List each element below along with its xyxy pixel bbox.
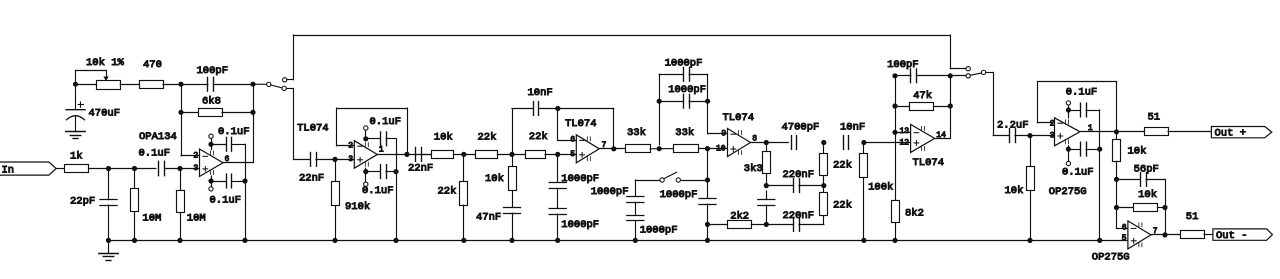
wire bus right drop — [950, 35, 966, 69]
capacitor 1000pF pair lower — [659, 84, 707, 108]
node fb-left mid — [178, 110, 183, 115]
resistor 10k shunt stage6 — [1005, 136, 1035, 241]
node rail junction x512 — [509, 238, 514, 243]
wire 33k to 33k — [650, 148, 673, 150]
svg-text:6: 6 — [570, 136, 575, 145]
svg-text:22pF: 22pF — [70, 196, 95, 208]
wire feedback left vertical — [181, 84, 183, 156]
node fb5 right mid — [948, 103, 953, 108]
svg-text:8k2: 8k2 — [905, 208, 924, 220]
wire top bypass bus — [293, 35, 950, 37]
svg-text:22k: 22k — [833, 200, 852, 212]
pin 5 label U7 — [1122, 234, 1127, 243]
resistor 51 bottom — [1181, 211, 1205, 238]
capacitor 4700pF — [782, 122, 820, 150]
op-amp U6 OP275G — [1049, 118, 1087, 198]
svg-text:TL074: TL074 — [913, 157, 945, 169]
capacitor 1000pF sw upper — [591, 186, 644, 203]
capacitor 10nF feedback — [512, 87, 614, 154]
wire 2.2uF to pin3 — [1015, 135, 1055, 137]
pin 3 label U1 — [193, 164, 198, 173]
node rail junction x707.5 — [705, 238, 710, 243]
svg-text:1000pF: 1000pF — [660, 189, 698, 201]
wire U2 output — [377, 154, 431, 156]
capacitor 470uF electrolytic — [66, 84, 120, 132]
wire fb node to switch1 — [253, 83, 267, 85]
svg-text:910k: 910k — [345, 201, 370, 213]
capacitor 0.1uF U1 bottom — [210, 174, 246, 206]
svg-text:0.1uF: 0.1uF — [1066, 87, 1098, 99]
node 100k top — [861, 140, 866, 145]
node rail junction x863.9 — [861, 238, 866, 243]
resistor 22k shunt1 — [438, 154, 468, 240]
pin 2 label U1 — [193, 152, 198, 161]
node pair right — [705, 99, 710, 104]
pin 7 label U3 — [602, 141, 607, 150]
pin 14 label U5 — [936, 131, 946, 140]
svg-text:5: 5 — [570, 150, 575, 159]
capacitor 22nF ladder — [408, 148, 433, 175]
svg-text:10M: 10M — [142, 212, 161, 224]
wire to pin12 — [864, 142, 911, 144]
resistor 22k twin-T lower — [820, 186, 852, 216]
wire throw-down to filter — [286, 88, 293, 159]
wire 22k to node2 — [498, 154, 526, 156]
wire 10k to 22k — [454, 154, 475, 156]
wire between sw caps — [635, 202, 637, 215]
svg-text:2.2uF: 2.2uF — [997, 120, 1029, 132]
node gain junction — [73, 82, 78, 87]
node after coupling cap — [177, 166, 182, 171]
wire cap to 10k — [421, 154, 431, 156]
svg-text:1000pF: 1000pF — [640, 224, 678, 236]
pin 3 label U6 — [1050, 132, 1055, 141]
node fb-left top — [178, 82, 183, 87]
port Out- — [1213, 229, 1273, 242]
wire pin6 — [1117, 228, 1128, 230]
svg-text:10nF: 10nF — [528, 87, 553, 99]
pin 6 label U3 — [570, 136, 575, 145]
pin 2 label U6 — [1050, 120, 1055, 129]
switch S1b throw down — [966, 74, 970, 78]
node U2 decoup join — [393, 169, 398, 174]
resistor 10M (first) — [131, 169, 162, 241]
node input-A junction — [106, 166, 111, 171]
svg-text:22nF: 22nF — [408, 163, 433, 175]
node U3 output — [611, 146, 616, 151]
wire fb5 right upper — [950, 76, 952, 106]
svg-text:6k8: 6k8 — [202, 95, 221, 107]
wire 51 to Out+ — [1168, 131, 1211, 133]
wire U6 decoup vertical — [1099, 110, 1101, 240]
wire feedback right vertical — [253, 84, 255, 163]
svg-text:10k: 10k — [434, 132, 453, 144]
op-amp U1 OPA134 — [139, 131, 223, 177]
node rail junction x1099.7 — [1097, 238, 1102, 243]
wire 1000pF pair left vertical — [659, 74, 661, 145]
node twin-T left bottom — [764, 222, 769, 227]
capacitor 1000pF chain lower — [549, 209, 599, 241]
capacitor 220nF row3 — [766, 218, 824, 232]
switch S2 contact right — [676, 178, 680, 182]
node rail junction x396 — [393, 238, 398, 243]
svg-text:Out +: Out + — [1215, 127, 1247, 139]
svg-text:22k: 22k — [438, 186, 457, 198]
node U6 decoup join — [1097, 147, 1102, 152]
svg-text:In: In — [2, 164, 15, 176]
svg-text:0.1uF: 0.1uF — [139, 148, 171, 160]
node U2 bottom decoup — [363, 169, 368, 174]
node fb5 left mid — [892, 103, 897, 108]
svg-text:10: 10 — [716, 144, 726, 153]
svg-text:2: 2 — [1050, 120, 1055, 129]
wire U2 decoup vertical — [396, 139, 398, 241]
node U1 decoup join — [242, 178, 247, 183]
svg-text:1000pF: 1000pF — [561, 219, 599, 231]
node fb5 left top — [892, 73, 897, 78]
capacitor 2.2uF — [997, 120, 1029, 143]
resistor 470 — [140, 59, 164, 89]
resistor 100k — [860, 143, 894, 241]
resistor 51 top — [1145, 112, 1169, 136]
node fb5 right top — [948, 73, 953, 78]
wire gain node to pot — [76, 84, 97, 86]
pin 7 label U7 — [1153, 227, 1158, 236]
potentiometer 10k body — [97, 81, 121, 90]
wire fb right drop — [613, 109, 615, 149]
wire U5 output — [935, 106, 951, 139]
resistor 2k2 — [708, 210, 767, 228]
svg-text:100pF: 100pF — [887, 59, 919, 71]
wire pin9 riser — [708, 74, 728, 134]
node 10k-fb left — [1114, 205, 1119, 210]
svg-text:10M: 10M — [187, 212, 206, 224]
wire R470 to feedback node — [163, 84, 181, 86]
port Out+ — [1211, 127, 1271, 140]
svg-text:13: 13 — [900, 127, 910, 136]
node 2k2 tap — [705, 222, 710, 227]
node rail junction x245 — [242, 238, 247, 243]
svg-text:22k: 22k — [833, 160, 852, 172]
node ladder-2 — [509, 152, 514, 157]
svg-text:100pF: 100pF — [197, 65, 229, 77]
node U6 top decoup — [1066, 107, 1071, 112]
node input-B junction — [132, 166, 137, 171]
wire 22k-B bottom hook — [823, 216, 825, 225]
svg-text:3: 3 — [348, 155, 353, 164]
svg-text:56pF: 56pF — [1134, 163, 1159, 175]
node ladder-1 — [461, 152, 466, 157]
node rail junction x1030 — [1027, 238, 1032, 243]
node U4 output — [764, 140, 769, 145]
pin 3 label U2 — [348, 155, 353, 164]
svg-text:0.1uF: 0.1uF — [370, 116, 402, 128]
svg-text:1000pF: 1000pF — [591, 186, 629, 198]
svg-text:100k: 100k — [868, 182, 893, 194]
node switch2 tap — [705, 177, 710, 182]
pin 12 label U5 — [900, 138, 910, 147]
node rail junction x557.7 — [555, 238, 560, 243]
svg-text:1000pF: 1000pF — [665, 57, 703, 69]
wire U2 feedback loop — [337, 108, 408, 154]
capacitor 56pF — [1117, 163, 1166, 207]
ground symbol main — [99, 240, 118, 260]
wire coupling cap to pin3 — [165, 168, 200, 170]
node 22k-A top — [821, 140, 826, 145]
svg-text:0.1uF: 0.1uF — [362, 185, 394, 197]
capacitor 1000pF sw lower — [627, 216, 678, 241]
node pin13 junction — [892, 130, 897, 135]
wire ground rail — [109, 240, 1128, 242]
svg-text:10k: 10k — [1005, 185, 1024, 197]
svg-text:1000pF: 1000pF — [561, 173, 599, 185]
power pin bottom U6 — [1066, 146, 1070, 166]
node 10k tap stage6 — [1027, 133, 1032, 138]
switch S2 lever — [664, 172, 677, 178]
resistor 6k8 — [181, 95, 253, 116]
wire pot to R470 — [120, 84, 139, 86]
pin 1 label U6 — [1088, 124, 1093, 133]
resistor 22k series2 — [526, 131, 548, 159]
wire U1 pin2 — [181, 155, 200, 157]
pin 6 label U7 — [1122, 224, 1127, 233]
node U6 output — [1114, 129, 1119, 134]
power pin bottom U2 — [364, 168, 368, 186]
node U7 output — [1162, 232, 1167, 237]
power pin bottom U1 — [209, 176, 213, 191]
switch S1a throw down — [282, 86, 286, 90]
node 10nF to pin6 — [555, 106, 560, 111]
node rail junction x134.5 — [132, 238, 137, 243]
wire gain node riser — [76, 71, 107, 85]
wire U7 output — [1151, 234, 1180, 236]
svg-text:3: 3 — [193, 164, 198, 173]
svg-text:10k: 10k — [1128, 145, 1147, 157]
capacitor 0.1uF input coupling — [139, 148, 171, 176]
capacitor 0.1uF U1 top — [211, 126, 250, 151]
svg-text:22k: 22k — [478, 132, 497, 144]
svg-text:22k: 22k — [529, 131, 548, 143]
capacitor 220nF shunt — [758, 191, 814, 224]
svg-text:9: 9 — [721, 130, 726, 139]
svg-text:5: 5 — [1122, 234, 1127, 243]
svg-text:47k: 47k — [913, 90, 932, 102]
node 33k junction — [657, 146, 662, 151]
wire U1 output — [223, 162, 253, 164]
op-amp U7 OP275G — [1092, 221, 1151, 263]
svg-text:1000pF: 1000pF — [668, 84, 706, 96]
resistor 910k — [332, 159, 371, 240]
node U2 top decoup — [363, 136, 368, 141]
capacitor 10nF series — [840, 122, 865, 150]
svg-text:OP275G: OP275G — [1092, 251, 1130, 263]
svg-text:33k: 33k — [627, 127, 646, 139]
node rail junction x108.5 — [106, 238, 111, 243]
capacitor 0.1uF U6 top — [1066, 87, 1100, 117]
svg-text:220nF: 220nF — [783, 169, 815, 181]
capacitor 22pF — [70, 169, 117, 241]
svg-text:33k: 33k — [675, 127, 694, 139]
potentiometer 10k 1% wiper arrow — [86, 57, 124, 81]
pin 10 label U4 — [716, 144, 726, 153]
node 910k tap — [332, 157, 337, 162]
svg-text:3k3: 3k3 — [744, 163, 763, 175]
svg-text:2k2: 2k2 — [730, 210, 749, 222]
switch S1b throw up — [966, 67, 970, 71]
capacitor 1000pF shunt — [660, 189, 716, 241]
resistor 8k2 — [892, 132, 924, 240]
wire U6 feedback loop — [1038, 82, 1117, 132]
pin 2 label U2 — [348, 142, 353, 151]
node twin-T right mid — [821, 183, 826, 188]
svg-text:Out -: Out - — [1216, 230, 1248, 242]
wire 22k to pin5 — [545, 154, 576, 156]
node ladder-3 — [555, 152, 560, 157]
pin 13 label U5 — [900, 127, 910, 136]
switch S1a pole — [267, 82, 271, 86]
pin 6 label U1 — [225, 155, 230, 164]
svg-text:22nF: 22nF — [299, 172, 324, 184]
wire U6 output — [1080, 131, 1144, 133]
node rail junction x635.3 — [633, 238, 638, 243]
svg-text:12: 12 — [900, 138, 910, 147]
wire pin10 shunt vertical — [707, 149, 709, 199]
resistor 33k second — [674, 127, 699, 153]
resistor 22k series1 — [476, 132, 498, 159]
capacitor 0.1uF U6 bottom — [1062, 142, 1100, 178]
wire In to R 1k — [56, 168, 64, 170]
port In (input) — [0, 162, 56, 176]
svg-text:10nF: 10nF — [840, 122, 865, 134]
switch S1b lever — [970, 73, 981, 75]
resistor 10k stage7 input — [1113, 132, 1147, 228]
capacitor 0.1uF U2 top — [366, 116, 401, 146]
capacitor 1000pF pair upper — [659, 57, 707, 81]
op-amp U2 TL074 — [297, 123, 377, 169]
resistor 10M (second) — [177, 169, 206, 241]
op-amp U3 TL074 — [565, 118, 599, 163]
svg-text:TL074: TL074 — [297, 123, 329, 135]
power pin top U1 — [209, 134, 213, 149]
wire fb drop to output — [1165, 208, 1167, 235]
svg-text:TL074: TL074 — [565, 118, 597, 130]
resistor 10k shunt — [485, 154, 517, 207]
node twin-T left mid — [764, 183, 769, 188]
resistor 10k stage7 feedback — [1117, 189, 1166, 212]
node U6 bottom decoup — [1066, 147, 1071, 152]
svg-text:10k: 10k — [485, 173, 504, 185]
node U1 top decoup — [208, 142, 213, 147]
node rail junction x180 — [177, 238, 182, 243]
wire pole to 2.2uF — [986, 72, 1010, 135]
wire U4 output — [751, 142, 789, 144]
svg-text:OP275G: OP275G — [1049, 186, 1087, 198]
resistor 33k first — [626, 127, 651, 153]
wire pin6 riser — [558, 109, 577, 141]
svg-text:3: 3 — [1050, 132, 1055, 141]
node U2 output — [404, 152, 409, 157]
pin 5 label U3 — [570, 150, 575, 159]
svg-text:OPA134: OPA134 — [139, 131, 177, 143]
wire switch2 to chain — [681, 180, 708, 182]
node pair left — [657, 99, 662, 104]
wire U1 decoup vertical — [245, 144, 247, 240]
resistor 3k3 — [744, 143, 771, 186]
capacitor 100pF stage1 — [181, 65, 253, 91]
svg-text:10k: 10k — [1138, 189, 1157, 201]
svg-text:0.1uF: 0.1uF — [1062, 166, 1094, 178]
wire switch2 left — [635, 180, 660, 197]
switch S1a lever — [271, 85, 282, 88]
svg-text:470uF: 470uF — [89, 108, 121, 120]
wire 33k to pin10 — [699, 148, 728, 150]
power pin top U6 — [1066, 101, 1070, 118]
resistor 10k ladder — [432, 132, 454, 159]
node fb-right top — [250, 82, 255, 87]
capacitor 47nF — [476, 208, 521, 241]
switch S1a throw up — [283, 78, 287, 82]
wire fb5 left vertical — [895, 76, 897, 133]
pin 9 label U4 — [721, 130, 726, 139]
ground below 470uF — [66, 132, 85, 139]
switch S1b pole — [981, 70, 985, 74]
resistor 47k — [895, 90, 950, 110]
wire 1k to coupling cap — [89, 168, 156, 170]
resistor 22k twin-T upper — [820, 143, 852, 186]
svg-text:470: 470 — [143, 59, 162, 71]
svg-text:47nF: 47nF — [476, 211, 501, 223]
node rail junction x895 — [892, 238, 897, 243]
svg-text:220nF: 220nF — [783, 210, 815, 222]
capacitor 220nF row2 — [766, 169, 824, 193]
wire pin13 — [895, 132, 911, 134]
pin 1 label U2 — [379, 146, 384, 155]
wire fb5 top to throw — [950, 75, 966, 77]
capacitor 100pF stage5 — [887, 59, 950, 83]
svg-text:51: 51 — [1186, 211, 1199, 223]
resistor 1k — [65, 151, 89, 173]
node U1 bottom decoup — [208, 178, 213, 183]
svg-text:4700pF: 4700pF — [782, 122, 820, 134]
wire throw-up to bus — [287, 35, 294, 80]
svg-text:1: 1 — [379, 146, 384, 155]
op-amp U5 TL074 — [911, 124, 944, 168]
svg-text:1k: 1k — [70, 151, 83, 163]
node 10k-fb right — [1162, 205, 1167, 210]
node rail junction x463.8 — [461, 238, 466, 243]
node 56pF tap — [1114, 177, 1119, 182]
capacitor 22nF stage2 input — [293, 153, 354, 185]
power pin top U2 — [364, 126, 368, 141]
svg-text:TL074: TL074 — [723, 112, 755, 124]
svg-text:2: 2 — [193, 152, 198, 161]
op-amp U4 TL074 — [723, 112, 755, 157]
node pin10 junction — [705, 146, 710, 151]
wire U3 output — [599, 148, 625, 150]
capacitor 1000pF chain upper — [549, 154, 599, 188]
svg-text:10k 1%: 10k 1% — [86, 57, 124, 69]
wire 51 to Out- — [1204, 234, 1213, 236]
svg-text:6: 6 — [1122, 224, 1127, 233]
svg-text:0.1uF: 0.1uF — [210, 195, 242, 207]
svg-text:51: 51 — [1148, 112, 1161, 124]
wire between chain caps — [557, 188, 559, 208]
capacitor 0.1uF U2 bottom — [362, 165, 396, 197]
node fb-right mid — [250, 110, 255, 115]
node rail junction x335 — [332, 238, 337, 243]
svg-text:0.1uF: 0.1uF — [218, 126, 250, 138]
pin 8 label U4 — [752, 135, 757, 144]
